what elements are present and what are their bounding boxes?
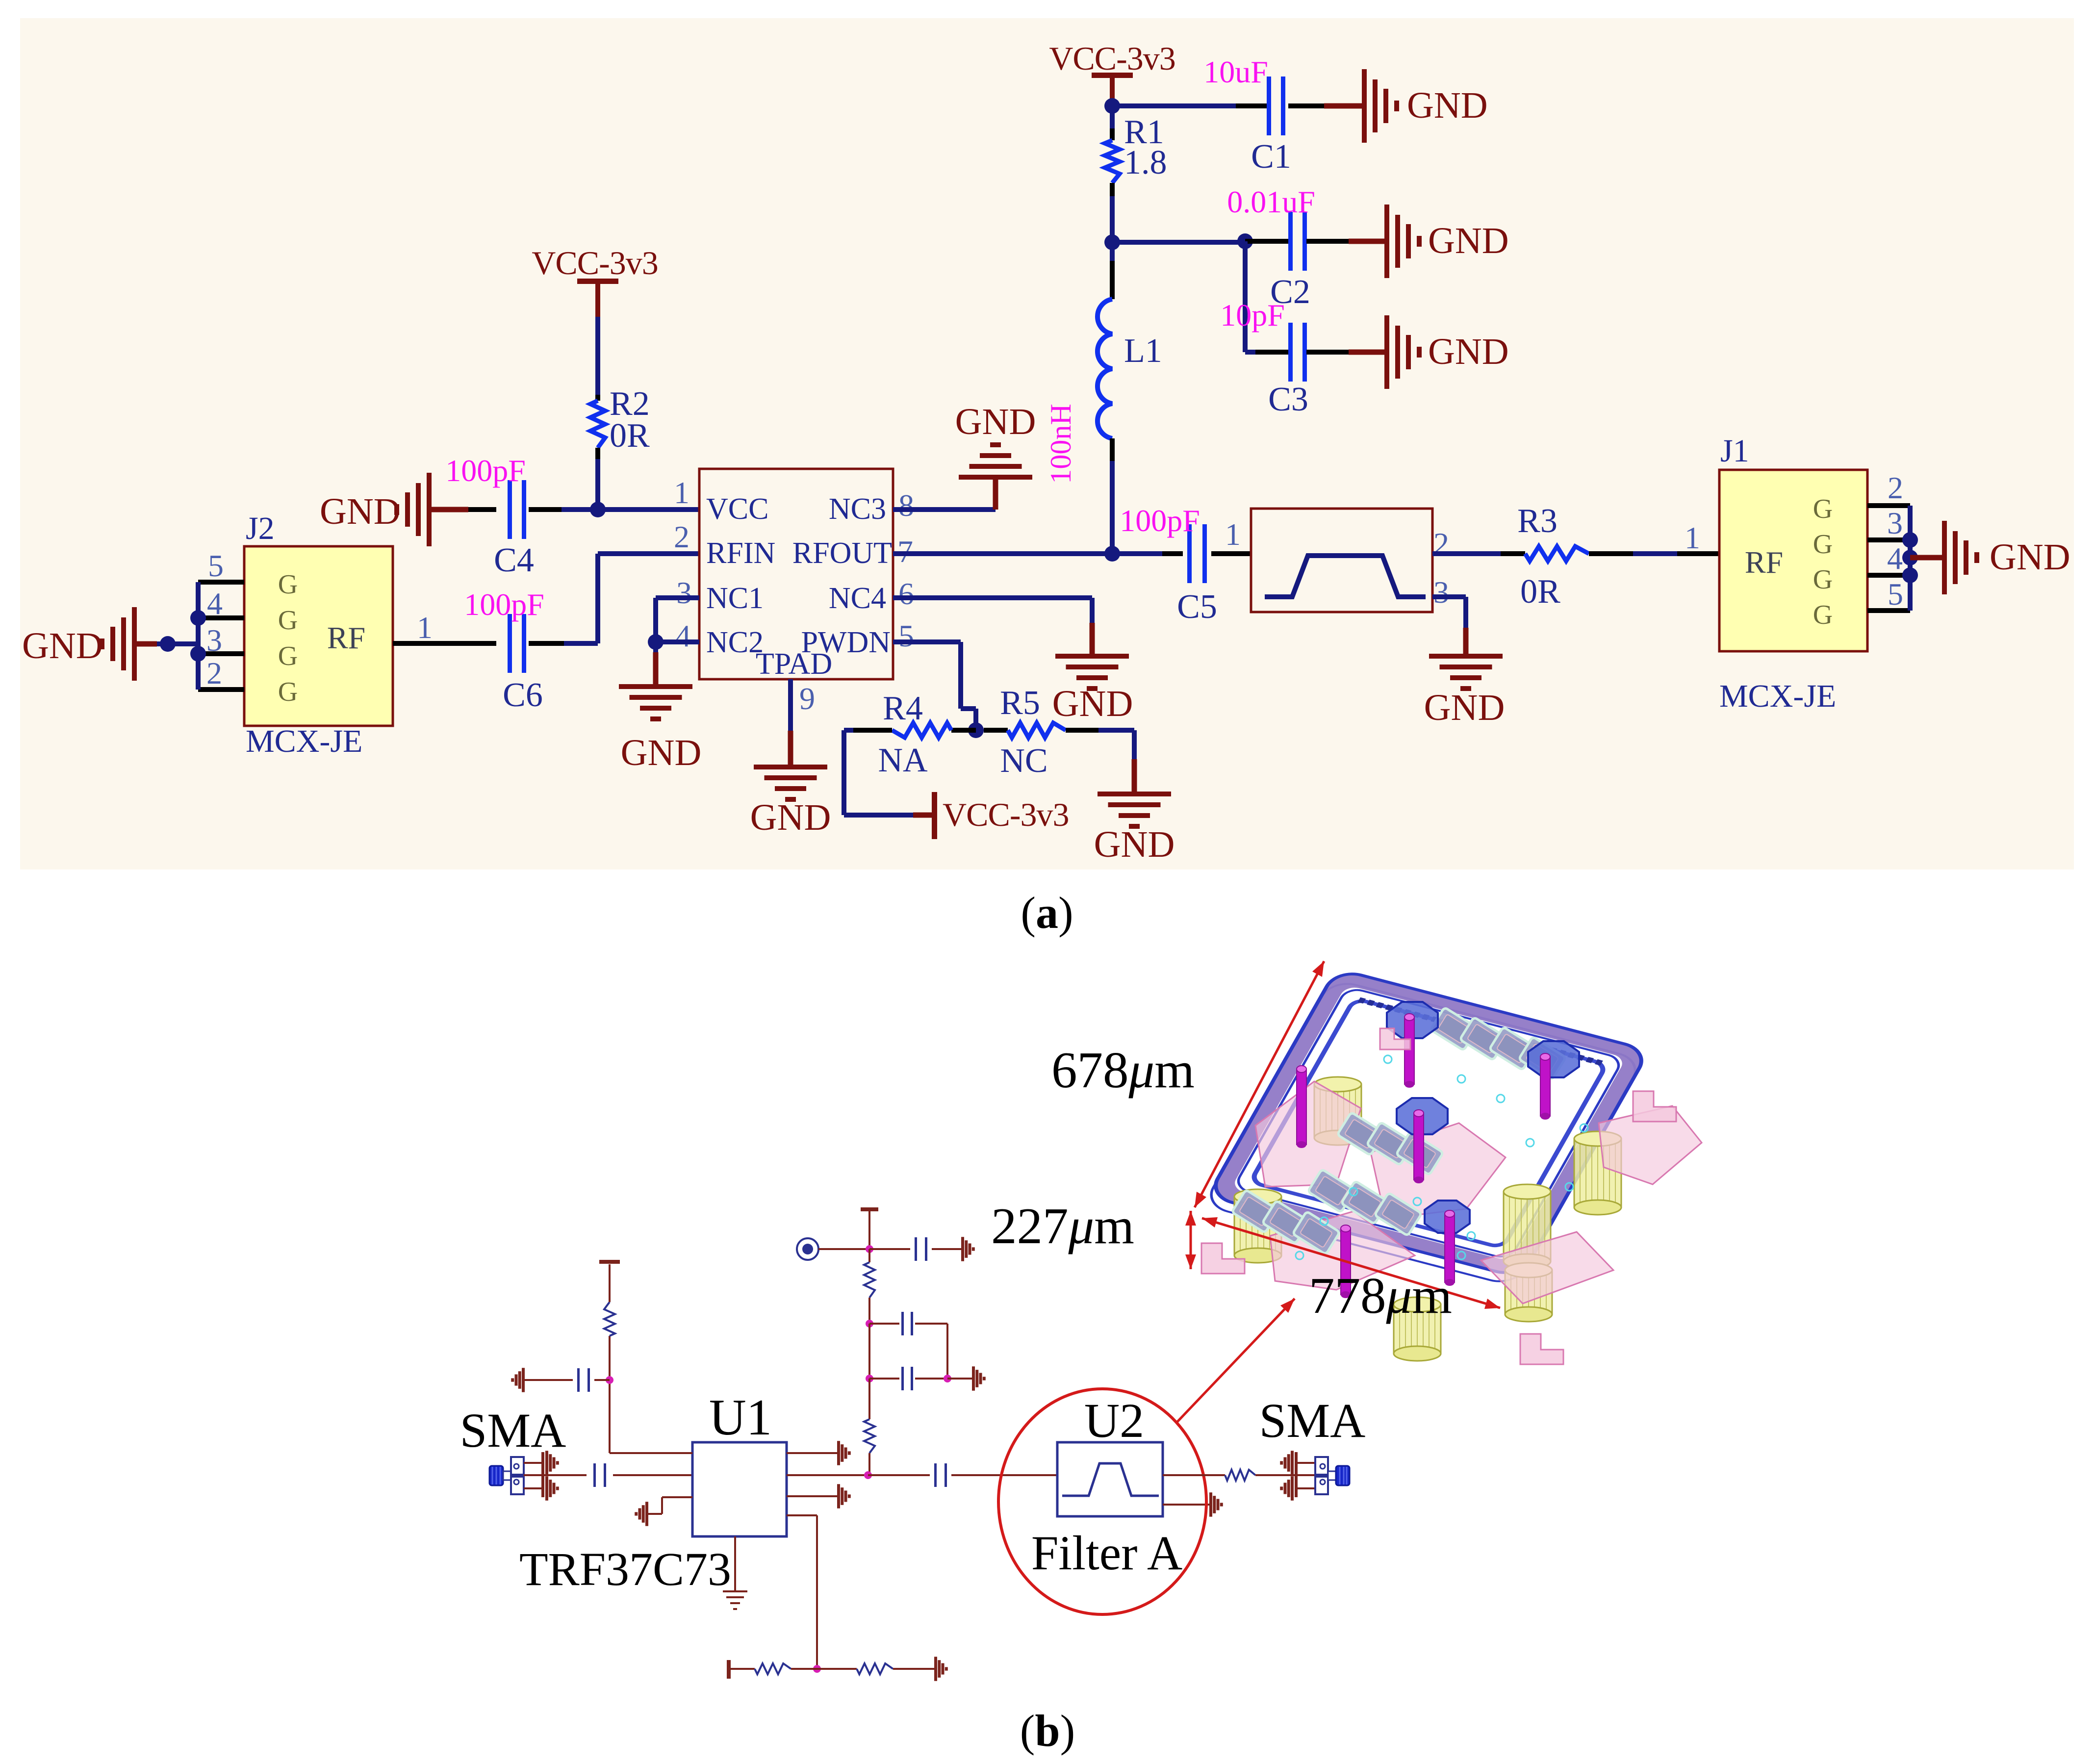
capacitor C3 10pF: [1220, 298, 1308, 418]
node junction H right: [915, 1375, 951, 1382]
svg-text:G: G: [1813, 529, 1833, 560]
svg-text:9: 9: [799, 681, 815, 716]
pin 4 (J1): [1867, 541, 1910, 576]
3D via cylinder yellow 1: [1314, 1077, 1361, 1145]
svg-text:G: G: [1813, 494, 1833, 524]
resistor (b) lower right: [817, 1663, 934, 1674]
3D via cylinder yellow 2: [1234, 1189, 1281, 1263]
svg-text:C1: C1: [1251, 138, 1291, 176]
3D L-pad top-inside: [1380, 1028, 1410, 1049]
wire GND to C4: [432, 507, 496, 512]
svg-text:10uF: 10uF: [1203, 54, 1268, 89]
svg-text:0.01uF: 0.01uF: [1227, 184, 1315, 219]
ground (b H row): [972, 1366, 975, 1391]
dimension arrow 778um: [1202, 1218, 1500, 1308]
resistor R4 NA: [844, 690, 976, 779]
ground (b bias cap): [522, 1368, 525, 1392]
svg-text:TPAD: TPAD: [756, 647, 832, 681]
svg-text:4: 4: [207, 586, 223, 621]
wire J1 ground bus: [1902, 506, 1918, 611]
3D via cylinder yellow 5: [1505, 1263, 1552, 1322]
wire filter pin2 to R3: [1432, 551, 1525, 556]
svg-text:SMA: SMA: [1259, 1393, 1366, 1448]
wire VCC node to C1: [1112, 103, 1268, 108]
node junction C2/C3 branch: [1237, 233, 1253, 249]
3D via left: [1297, 1066, 1306, 1148]
svg-text:RF: RF: [327, 620, 365, 655]
svg-text:3: 3: [1433, 575, 1449, 610]
svg-text:(b): (b): [1020, 1706, 1075, 1756]
wire cap to U2: [951, 1474, 1057, 1476]
wire TPAD pin9 to GND: [788, 679, 793, 765]
capacitor (b) input coupling: [593, 1463, 606, 1487]
pin 5 (J1): [1867, 577, 1910, 612]
node junction R1/L1/C2: [1104, 234, 1120, 250]
terminal T-bar (b) top: [861, 1207, 878, 1249]
capacitor C2 0.01uF: [1227, 184, 1315, 311]
testpoint circle (b): [797, 1238, 818, 1260]
node junction R2/C4/VCC pin: [590, 502, 606, 517]
capacitor (b) top: [915, 1237, 917, 1261]
3D filter model cavity ring: [1202, 969, 1649, 1286]
wire U1 pin to bias resistor: [610, 1336, 692, 1453]
3D L-pad bottom-left: [1201, 1243, 1245, 1274]
svg-text:227μm: 227μm: [991, 1197, 1134, 1254]
wire H right side: [915, 1324, 947, 1379]
3D pink pad right: [1599, 1106, 1702, 1184]
ground (SMA right top): [1291, 1451, 1294, 1475]
resistor (b) output: [1225, 1470, 1255, 1481]
svg-text:3: 3: [1887, 506, 1903, 540]
3D pad+via right: [1528, 1041, 1579, 1120]
svg-text:G: G: [1813, 600, 1833, 630]
highlight ellipse (Filter A): [998, 1389, 1206, 1614]
wire C1 to GND: [1288, 103, 1362, 108]
node junction H top: [866, 1320, 873, 1328]
wire cap to junction: [594, 1379, 610, 1381]
wire C5 to filter: [1211, 551, 1251, 556]
svg-text:5: 5: [208, 548, 224, 583]
wire divider mid: [868, 1324, 870, 1379]
svg-text:C3: C3: [1268, 381, 1308, 418]
ground (SMA left shared bar): [541, 1452, 544, 1497]
wire filter pin3 to GND: [1432, 597, 1466, 654]
resistor (b) bias vertical: [604, 1302, 615, 1336]
pin 5 (J2): [198, 548, 244, 583]
svg-text:G: G: [278, 569, 298, 600]
svg-text:778μm: 778μm: [1309, 1267, 1452, 1324]
wire C6 to RFIN: [529, 554, 699, 643]
filter U2 bandpass: [1251, 509, 1432, 612]
wire resistor to terminal: [609, 1264, 611, 1302]
svg-text:GND: GND: [1990, 537, 2070, 578]
wire NC1/NC2 to GND: [648, 598, 699, 684]
wire PWDN pin5 to R4/R5 node: [893, 642, 976, 730]
node junction H bottom: [866, 1375, 873, 1382]
capacitor (b) output coupling: [934, 1463, 937, 1487]
ground GND (NC1/NC2): [619, 684, 701, 773]
svg-text:GND: GND: [621, 732, 702, 773]
svg-text:VCC-3v3: VCC-3v3: [943, 796, 1069, 833]
ground GND (C3): [1384, 315, 1509, 389]
wire J2 ground bus: [190, 582, 206, 690]
node junction VCC/R1/C1: [1104, 98, 1120, 128]
svg-text:MCX-JE: MCX-JE: [1719, 678, 1836, 714]
power VCC-3v3 (R4): [932, 792, 1069, 839]
svg-text:RFOUT: RFOUT: [792, 537, 892, 570]
terminal T-bar (b) lower: [727, 1660, 731, 1679]
terminal T-bar (b) left: [599, 1260, 620, 1264]
svg-text:G: G: [278, 605, 298, 636]
wire U2 gnd pin: [1163, 1504, 1209, 1506]
ground GND (J2): [22, 607, 137, 681]
wire RFOUT to C5: [893, 546, 1183, 562]
connector J2 MCX-JE: [244, 511, 393, 759]
capacitor C1 10uF: [1203, 54, 1291, 176]
wire gnd to cap: [525, 1379, 573, 1381]
svg-text:(a): (a): [1021, 888, 1073, 938]
svg-text:L1: L1: [1124, 332, 1162, 370]
capacitor (b) H bottom: [901, 1367, 904, 1390]
resistor (b) divider lower: [864, 1379, 875, 1475]
wire divider cap row: [869, 1248, 910, 1250]
node junction R4/R5/PWDN: [968, 722, 984, 738]
wire SMA left grounds: [524, 1463, 542, 1488]
3D pad+via center: [1397, 1098, 1448, 1183]
schematic (a) background panel: [20, 18, 2074, 869]
capacitor C6 100pF: [464, 587, 544, 714]
IC U1 TRF37C73: [692, 1442, 787, 1536]
svg-text:NA: NA: [878, 741, 928, 779]
ground GND (TPAD): [750, 765, 831, 838]
ground (b top row): [961, 1237, 964, 1261]
svg-text:R4: R4: [883, 690, 923, 727]
svg-text:1: 1: [417, 610, 433, 645]
wire C to U1: [613, 1474, 692, 1476]
svg-text:4: 4: [1887, 541, 1903, 576]
svg-text:2: 2: [1888, 470, 1903, 505]
ground GND (C2): [1384, 205, 1509, 278]
pin 3 (J1): [1867, 506, 1910, 540]
svg-text:GND: GND: [22, 625, 103, 666]
svg-text:NC1: NC1: [706, 582, 764, 615]
wire H top branch: [869, 1323, 899, 1325]
node junction divider top: [866, 1245, 873, 1253]
wire U1 lower-left pin to GND: [648, 1497, 692, 1514]
svg-text:1.8: 1.8: [1124, 144, 1167, 181]
node junction lower bias: [813, 1665, 821, 1673]
ground (U1 left): [645, 1502, 648, 1526]
svg-text:NC3: NC3: [829, 492, 886, 526]
resistor (b) lower left: [729, 1663, 817, 1674]
wire GND to J2 bus: [137, 636, 198, 652]
wire junction to C2: [1245, 239, 1289, 244]
wire U1 bottom pin to GND: [734, 1536, 736, 1591]
callout arrow ellipse to 3D view: [1176, 1299, 1295, 1423]
wire U2 out to R: [1163, 1474, 1225, 1476]
svg-text:R5: R5: [1000, 684, 1040, 722]
svg-text:0R: 0R: [610, 417, 650, 455]
inductor L1 100nH: [1045, 242, 1162, 554]
ground (SMA right shared bar): [1295, 1452, 1298, 1497]
svg-text:C6: C6: [503, 676, 543, 714]
svg-text:1: 1: [674, 475, 689, 510]
svg-text:VCC-3v3: VCC-3v3: [1049, 40, 1175, 77]
svg-text:8: 8: [898, 488, 914, 523]
ground GND (J1): [1942, 521, 2070, 594]
wire SMA to C (b-in): [524, 1474, 587, 1476]
ground GND (NC3): [955, 401, 1036, 480]
wire H to GND: [947, 1378, 972, 1380]
ground (SMA left top): [545, 1451, 559, 1475]
wire C3 to GND: [1306, 350, 1384, 355]
3D pink pad bottom-right: [1481, 1232, 1613, 1304]
ground (U1 right top): [837, 1441, 840, 1465]
svg-text:J2: J2: [246, 511, 275, 546]
3D capacitor plates chain bottom: [1308, 1169, 1422, 1236]
svg-text:2: 2: [206, 656, 222, 690]
ground GND (filter): [1424, 654, 1505, 728]
svg-text:NC2: NC2: [706, 626, 764, 659]
power VCC-3v3 (R2 rail): [532, 244, 658, 317]
wire R to SMA right: [1255, 1474, 1315, 1476]
ground (U2): [1209, 1492, 1212, 1517]
pin 2 (J2): [198, 656, 244, 690]
3D capacitor plates chain corner: [1232, 1190, 1340, 1254]
svg-text:RFIN: RFIN: [706, 537, 775, 570]
power VCC-3v3 top rail: [1049, 40, 1175, 103]
capacitor C4 100pF: [445, 453, 534, 579]
svg-text:1: 1: [1225, 517, 1241, 552]
svg-text:3: 3: [206, 623, 222, 658]
pin 1 RF (J2): [393, 610, 433, 645]
pin 4 (J2): [198, 586, 244, 621]
svg-text:U1: U1: [709, 1388, 772, 1446]
3D via holes cyan: [1296, 1055, 1588, 1259]
wire C4 to VCC node to pin1: [529, 507, 699, 512]
3D pink pad left: [1255, 1081, 1361, 1187]
3D via cylinder yellow 3: [1504, 1184, 1551, 1269]
wire cap to gnd: [932, 1248, 961, 1250]
wire RF to C6: [432, 641, 496, 646]
svg-text:GND: GND: [1424, 687, 1505, 728]
ground GND (NC4): [1052, 654, 1133, 724]
svg-text:RF: RF: [1745, 545, 1783, 580]
wire U1 right lower pin to GND: [787, 1495, 837, 1497]
capacitor (b) H top: [901, 1312, 904, 1335]
wire R4 to VCC-3v3: [844, 730, 932, 815]
pin 2 (J1): [1867, 470, 1910, 506]
3D via bottom-left: [1341, 1225, 1351, 1298]
svg-text:10pF: 10pF: [1220, 298, 1285, 332]
svg-text:C5: C5: [1177, 588, 1217, 626]
wire C2 to GND: [1306, 239, 1384, 244]
svg-text:G: G: [1813, 564, 1833, 595]
ground GND (C1): [1362, 69, 1488, 143]
svg-text:NC: NC: [1000, 742, 1047, 780]
svg-text:G: G: [278, 677, 298, 707]
svg-text:GND: GND: [750, 797, 831, 838]
svg-text:U2: U2: [1084, 1393, 1144, 1448]
svg-text:VCC: VCC: [706, 492, 768, 526]
svg-text:4: 4: [675, 618, 691, 653]
wire C2 junction down to C3: [1245, 241, 1289, 352]
svg-text:VCC-3v3: VCC-3v3: [532, 244, 658, 281]
wire node to C2 branch: [1112, 240, 1245, 245]
connector SMA right: [1315, 1457, 1350, 1494]
3D capacitor plates chain top: [1430, 1007, 1566, 1080]
svg-text:0R: 0R: [1520, 573, 1560, 611]
3D via cylinder yellow 4: [1574, 1131, 1621, 1215]
dimension arrow 227um: [1190, 1211, 1192, 1269]
ground (SMA right bottom): [1291, 1476, 1294, 1501]
svg-text:5: 5: [1888, 577, 1903, 612]
svg-text:J1: J1: [1720, 433, 1749, 469]
svg-text:G: G: [278, 641, 298, 671]
svg-text:GND: GND: [1428, 331, 1509, 372]
wire R3 to J1: [1589, 551, 1719, 556]
wire U1 to lower bias row: [787, 1515, 817, 1669]
wire SMA right grounds: [1297, 1463, 1315, 1488]
wire bus to GND: [1910, 555, 1942, 561]
ground (lower bias): [934, 1657, 937, 1681]
svg-text:GND: GND: [1428, 220, 1509, 261]
filter U2 Filter A: [1057, 1442, 1163, 1516]
svg-text:2: 2: [674, 519, 689, 554]
svg-text:Filter A: Filter A: [1031, 1526, 1182, 1580]
dimension arrow 678um: [1195, 961, 1324, 1207]
svg-text:TRF37C73: TRF37C73: [519, 1543, 731, 1595]
svg-text:5: 5: [898, 618, 914, 653]
wire R5 to GND: [1132, 730, 1137, 792]
3D pink pad bottom-left: [1270, 1211, 1415, 1290]
svg-text:1: 1: [1685, 520, 1700, 555]
ground GND (C4): [320, 473, 432, 546]
svg-text:GND: GND: [1094, 824, 1175, 865]
capacitor (b) bias decoupling: [577, 1368, 580, 1392]
node junction (b) bias: [606, 1376, 613, 1384]
connector J1 MCX-JE: [1719, 433, 1867, 714]
ground (U1 bottom): [723, 1590, 747, 1610]
IC U TRF37C73 amplifier: [699, 469, 893, 681]
svg-text:100nH: 100nH: [1045, 404, 1077, 484]
3D L-pad right: [1633, 1091, 1676, 1122]
svg-text:R3: R3: [1517, 502, 1558, 540]
wire testpoint to divider: [818, 1248, 869, 1250]
3D pink pad center: [1371, 1123, 1506, 1219]
svg-text:GND: GND: [1407, 85, 1488, 126]
svg-text:GND: GND: [955, 401, 1036, 442]
svg-text:3: 3: [676, 575, 692, 610]
pin 3 (J2): [198, 623, 244, 658]
svg-text:MCX-JE: MCX-JE: [246, 723, 362, 759]
3D pad+via top: [1387, 1002, 1438, 1088]
3D capacitor plates chain middle: [1337, 1112, 1443, 1175]
ground (SMA left bottom): [545, 1476, 559, 1501]
resistor R5 NC: [984, 684, 1134, 780]
wire NC3 pin8 to GND: [893, 480, 996, 510]
svg-text:6: 6: [898, 576, 914, 611]
svg-text:GND: GND: [1052, 683, 1133, 724]
ground GND (R5): [1094, 792, 1175, 865]
wire U1 right top pin to GND: [787, 1452, 837, 1454]
resistor R2 0R: [590, 317, 650, 510]
svg-text:678μm: 678μm: [1051, 1041, 1195, 1099]
wire NC4 pin6 to GND: [893, 598, 1092, 654]
connector SMA left: [489, 1457, 524, 1494]
svg-text:100pF: 100pF: [445, 453, 526, 488]
svg-text:100pF: 100pF: [464, 587, 544, 622]
3D via cylinder yellow 6: [1394, 1297, 1441, 1361]
svg-text:SMA: SMA: [460, 1403, 566, 1457]
svg-text:GND: GND: [320, 491, 401, 532]
resistor (b) divider upper: [864, 1249, 875, 1324]
wire H bottom branch: [869, 1378, 899, 1380]
resistor R3 0R: [1517, 502, 1589, 611]
ground (U1 right lower): [837, 1484, 840, 1508]
svg-text:100pF: 100pF: [1120, 503, 1200, 538]
capacitor C5 100pF: [1120, 503, 1217, 626]
3D pad+via bottom: [1425, 1201, 1470, 1286]
3D L-pad bottom-right: [1520, 1334, 1563, 1364]
resistor R1 1.8: [1105, 113, 1167, 242]
wire U1 out to U2: [787, 1471, 930, 1479]
svg-text:NC4: NC4: [829, 582, 886, 615]
svg-text:C4: C4: [494, 541, 534, 579]
